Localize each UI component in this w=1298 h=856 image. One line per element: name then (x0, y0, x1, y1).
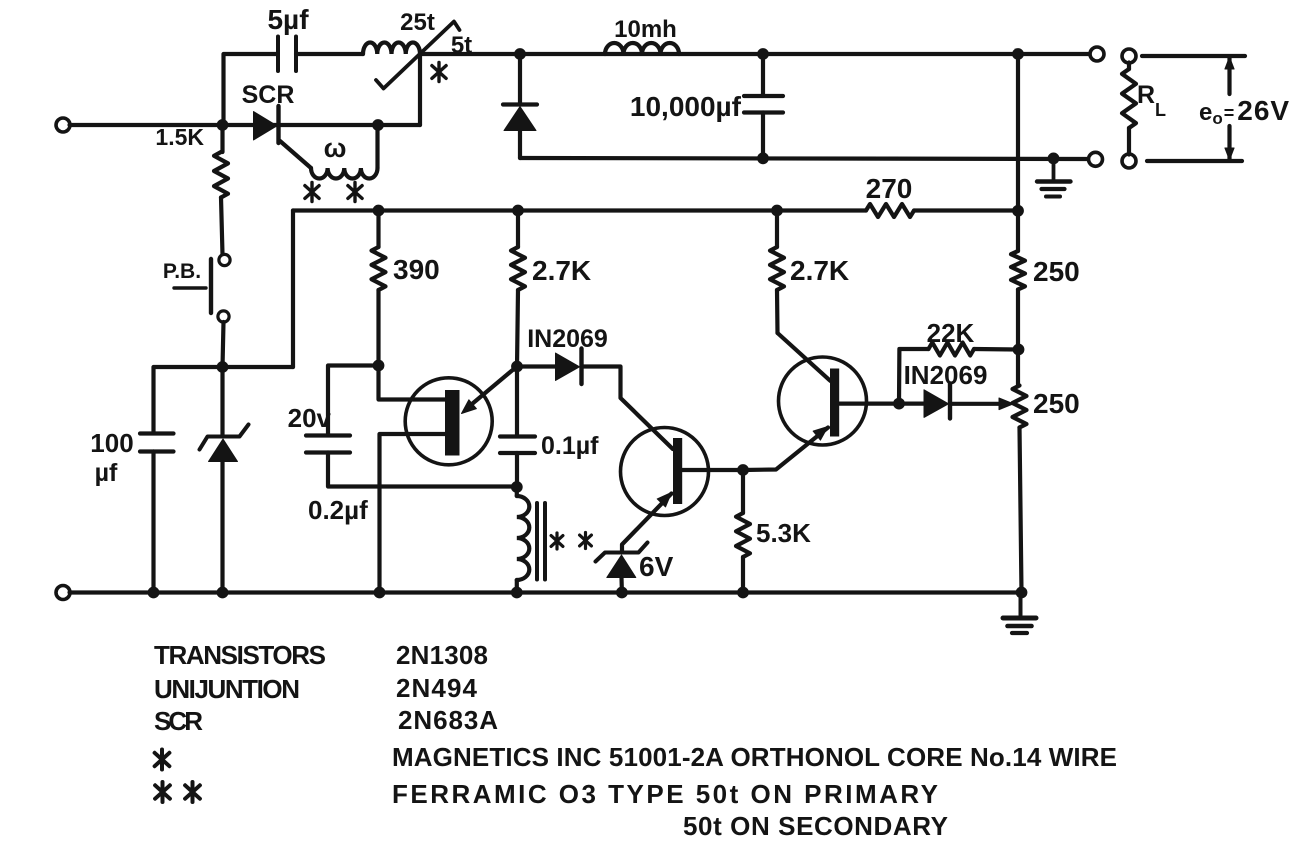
junction node D (373, 360, 385, 372)
junction node H (Q3 lead / 22K) (893, 398, 905, 410)
inductor gate coil (omega) (311, 168, 378, 179)
svg-text:R: R (1137, 81, 1155, 109)
wire timing cap to node E (328, 453, 517, 487)
transformer T1 primary coil (515, 487, 519, 496)
capacitor C1 5uf plates (276, 37, 280, 72)
svg-text:5µf: 5µf (267, 4, 309, 35)
zener diode CR5 6V cathode bar (596, 543, 648, 562)
transistor Q3 emitter with arrow (743, 428, 828, 471)
svg-text:250: 250 (1033, 388, 1080, 419)
diode CR4 IN2069 anode wire (517, 364, 556, 368)
transistor Q2 base bar (673, 438, 682, 504)
resistor R3 2.7K left (516, 211, 520, 248)
junction 22K / feedback vertical (1013, 344, 1025, 356)
junction zener / bottom rail (217, 587, 229, 599)
svg-text:P.B.: P.B. (163, 260, 201, 283)
svg-text:10,000µf: 10,000µf (630, 91, 742, 122)
diode CR4 cathode bar (579, 349, 583, 385)
svg-text:2N494: 2N494 (396, 673, 478, 703)
svg-text:50t ON SECONDARY: 50t ON SECONDARY (683, 811, 948, 841)
wire CR6 to pot wiper with arrow (951, 402, 1003, 406)
svg-text:UNIJUNTION: UNIJUNTION (154, 674, 300, 704)
svg-text:22K: 22K (927, 318, 975, 348)
wire bottom rail (70, 590, 1022, 594)
resistor R4 5.3K (741, 470, 745, 513)
zener diode CR3 cathode bar (200, 425, 249, 450)
junction node G (Q2 lead / 5.3K) (737, 464, 749, 476)
transistor Q3 2N1308 circle (779, 357, 867, 445)
transistor Q3 right lead (839, 402, 899, 406)
ground symbol G2 (1019, 593, 1023, 616)
wire P.B. to node C (223, 322, 224, 367)
potentiometer 250 element (1013, 386, 1027, 428)
wire 5uf to 25t (296, 52, 363, 56)
svg-text:µf: µf (95, 459, 118, 487)
zener diode CR5 triangle (607, 555, 636, 578)
junction bottom rail / ground G2 (1016, 587, 1028, 599)
asterisk marks transformer (555, 533, 558, 549)
svg-text:2N1308: 2N1308 (396, 640, 488, 670)
inductor L1 25t (363, 43, 420, 54)
diode CR6 IN2069 anode wire (899, 402, 924, 406)
diode CR6 triangle (924, 390, 949, 418)
junction filter cap / return rail (757, 152, 769, 164)
junction 5.3K / bottom rail (737, 587, 749, 599)
junction UJT base1 / bottom rail (374, 587, 386, 599)
junction top rail / diode CR2 (514, 48, 526, 60)
wire top rail to output (420, 52, 1090, 56)
capacitor C3 100uf plates (140, 431, 174, 435)
transistor Q2 2N1308 circle (621, 428, 709, 516)
junction 100uf / bottom rail (148, 587, 160, 599)
load resistor RL terminals (1122, 49, 1136, 63)
bottom rail terminal (left) (56, 586, 70, 600)
unijunction Q1 emitter lead with arrow (466, 367, 517, 410)
diode CR6 cathode bar (948, 384, 952, 419)
wire gate coil to node B (375, 125, 379, 168)
wire node D to UJT base2 (379, 366, 447, 400)
inductor L2 10mh (605, 43, 679, 54)
legend row single asterisk (160, 750, 164, 770)
diode CR2 (freewheel) triangle (504, 107, 536, 131)
transistor Q2 emitter with arrow (622, 494, 672, 552)
resistor R6 22K branch (899, 349, 929, 404)
svg-text:2.7K: 2.7K (532, 255, 591, 286)
pushbutton P.B. top contact (219, 254, 230, 265)
pushbutton P.B. bottom contact (218, 311, 229, 322)
wire second rail (feedback bus) (293, 208, 866, 212)
diode CR4 triangle (556, 353, 580, 381)
capacitor C5 0.1uf plates (500, 434, 535, 438)
svg-text:MAGNETICS INC 51001-2A ORTHONO: MAGNETICS INC 51001-2A ORTHONOL CORE No.… (392, 742, 1117, 772)
junction node A (1.5K / 5uf tap) (217, 119, 229, 131)
svg-text:25t: 25t (400, 9, 435, 36)
wire zener CR5 to bottom rail (619, 578, 624, 593)
output terminal (-) (1089, 152, 1103, 166)
wire return rail (output lower) (520, 158, 1089, 159)
wire 0.1uf to node E (515, 453, 519, 487)
junction return rail / ground (1048, 153, 1060, 165)
SCR cathode bar (276, 106, 280, 143)
resistor R270 in rail (866, 204, 914, 217)
capacitor C4 0.2uf plates (306, 433, 350, 437)
junction node E (511, 481, 523, 493)
svg-text:0.2µf: 0.2µf (308, 495, 368, 525)
svg-text:5.3K: 5.3K (756, 518, 811, 548)
svg-text:250: 250 (1033, 256, 1080, 287)
wire rail left drop (291, 211, 295, 368)
wire main input line (70, 123, 421, 127)
svg-text:20v: 20v (288, 403, 332, 433)
wire feedback vertical upper (1016, 54, 1020, 251)
junction zener CR5 / bottom rail (616, 587, 628, 599)
junction node F (511, 361, 523, 373)
svg-text:TRANSISTORS: TRANSISTORS (154, 640, 326, 670)
input terminal (left, +) (56, 118, 70, 132)
resistor R1 1.5K (220, 125, 224, 152)
resistor R5 2.7K right (775, 211, 779, 248)
svg-text:10mh: 10mh (614, 16, 677, 43)
junction node C (217, 361, 229, 373)
svg-text:2.7K: 2.7K (790, 255, 849, 286)
wire feedback vertical lower (1020, 428, 1022, 593)
resistor R2 390 (376, 211, 380, 248)
wire diode CR2 anode (518, 131, 522, 158)
SCR anode triangle (254, 112, 278, 141)
junction rail / 2.7K right (771, 205, 783, 217)
wire filter cap bottom (761, 113, 765, 159)
junction top rail / feedback line (1012, 48, 1024, 60)
junction top rail / filter cap (757, 48, 769, 60)
wire zener CR3 to bottom rail (220, 462, 224, 593)
svg-text:SCR: SCR (154, 706, 203, 736)
svg-text:ω: ω (324, 133, 347, 163)
wire node C to second rail riser (223, 365, 294, 369)
svg-text:100: 100 (90, 428, 133, 458)
wire feedback vertical middle (1016, 290, 1020, 386)
capacitor C2 10000uf plates (744, 94, 783, 98)
output terminal (+) (1090, 47, 1104, 61)
wire 2.7K to Q3 collector (775, 290, 780, 333)
capacitor C5 0.1uf wire (515, 367, 519, 436)
svg-text:6V: 6V (639, 551, 674, 582)
legend row double asterisk (161, 782, 165, 802)
variable arrow through L1 (376, 22, 460, 89)
wire CR4 to Q2 collector (582, 367, 673, 450)
svg-text:2N683A: 2N683A (398, 705, 498, 735)
ground symbol G1 (1052, 158, 1056, 179)
svg-text:IN2069: IN2069 (527, 325, 608, 353)
junction node B (gate coil tap) (372, 119, 384, 131)
zener diode CR3 triangle (209, 439, 238, 462)
diode CR2 cathode bar (503, 102, 537, 106)
wire node C to zener CR3 (220, 367, 224, 435)
asterisk marks below gate coil (310, 183, 313, 202)
svg-text:SCR: SCR (242, 81, 295, 109)
wire L1 right end down (418, 54, 422, 125)
wire UJT base1 to bottom rail (380, 434, 447, 593)
wire SCR gate lead (280, 141, 311, 168)
svg-text:1.5K: 1.5K (155, 124, 204, 150)
asterisk mark near L1 (437, 63, 440, 82)
junction rail / feedback vertical (1012, 205, 1024, 217)
junction rail / 390 (373, 205, 385, 217)
transistor Q3 base bar (830, 369, 839, 437)
transformer T1 core bars (535, 503, 539, 580)
wire 5uf branch up-left (224, 54, 278, 125)
resistor R250 upper (1011, 251, 1025, 290)
pushbutton P.B. actuator (209, 259, 213, 313)
dimension bracket eo (1142, 54, 1245, 58)
wire node D to timing cap (328, 366, 379, 435)
unijunction Q1 base bar (445, 390, 460, 456)
wire node C to 100uf (154, 367, 223, 433)
wire 2.7K to node F (517, 290, 518, 367)
resistor RL (1127, 63, 1131, 70)
svg-text:270: 270 (866, 173, 913, 204)
svg-text:L: L (1155, 100, 1166, 120)
svg-text:0.1µf: 0.1µf (541, 432, 599, 460)
wire filter cap top (761, 54, 765, 96)
wire 100uf to bottom rail (151, 452, 155, 593)
transistor Q2 right lead (682, 468, 743, 472)
svg-text:390: 390 (393, 254, 440, 285)
unijunction transistor Q1 2N494 circle (405, 378, 492, 465)
junction rail / 2.7K left (512, 205, 524, 217)
junction T1 / bottom rail (511, 587, 523, 599)
svg-text:IN2069: IN2069 (904, 360, 988, 390)
wire 390 to node D (376, 290, 380, 366)
